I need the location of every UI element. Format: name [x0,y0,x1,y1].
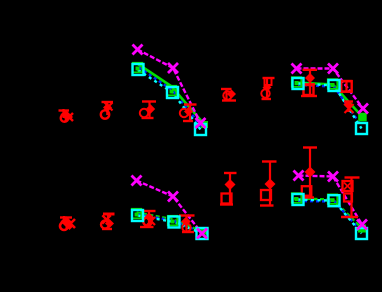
red diamond [181,217,191,226]
red open square [222,194,232,204]
green open square marker [133,63,143,73]
green open square marker [167,86,177,96]
cyan open square marker [293,78,304,89]
red open square [343,181,353,191]
red errbar cap [182,231,194,233]
red open circle [61,114,69,122]
top-left cyan dashed line [138,70,201,130]
green dot [171,220,175,224]
red errbar cap [143,210,156,212]
green dot [295,197,299,201]
magenta X marker [197,229,207,239]
red errbar cap [303,146,317,148]
red open circle [261,89,269,97]
red errbar cap [304,83,316,85]
top-right cyan dashed line [298,84,362,129]
red errbar cap [344,100,353,102]
bottom-left magenta dashed line [137,181,203,234]
red open square [302,186,312,196]
red open square [344,194,352,202]
red diamond [344,100,353,109]
red errbar [266,78,268,99]
red errbar [309,148,311,198]
red errbar [229,173,231,205]
red open square [341,81,352,92]
red errbar [63,216,65,224]
red errbar cap [142,100,156,102]
green dot [295,81,299,85]
bottom-right blue dashed line [298,201,361,231]
green open square marker [328,79,338,89]
red errbar [106,102,108,115]
red diamond [227,90,236,99]
red errbar cap [184,103,197,105]
bottom-right cyan dashed line [298,200,362,234]
green open square marker [168,216,178,226]
red errbar [62,109,64,118]
cyan open square marker [195,124,206,135]
red diamond [145,213,154,222]
green open square marker [292,193,302,203]
red errbar cap [59,109,70,111]
red diamond [67,114,73,120]
cyan open square marker [293,194,304,205]
red errbar cap [183,120,193,122]
green open square marker [328,194,338,204]
cyan open square marker [167,87,178,98]
top-left magenta dashed line [138,50,201,124]
cyan open square marker [329,80,340,91]
magenta X marker [133,45,143,55]
cyan open square marker [197,228,208,239]
magenta X marker [357,220,367,230]
red errbar [347,102,349,113]
green dot [170,90,174,94]
red open circle [143,217,151,225]
red cross [102,215,110,223]
magenta X marker [292,64,302,74]
red errbar cap [262,160,277,162]
red cross [147,217,155,225]
top-right green solid line [296,83,363,118]
red errbar [189,105,191,122]
top-right magenta dashed line [297,69,364,109]
red errbar cap [140,226,154,228]
red errbar cap [103,213,115,216]
bottom-right green dashed line [294,199,362,229]
red diamond [61,216,72,227]
red errbar cap [222,99,236,101]
red open circle [180,109,188,117]
red errbar cap [142,117,154,119]
red diamond [105,219,114,228]
green square marker [358,225,366,233]
red errbar [107,214,109,224]
red cross [344,183,351,190]
red diamond [66,223,73,230]
green dot [136,67,140,71]
red open circle [101,221,109,229]
red open square [265,78,272,85]
cyan open square marker [356,228,367,239]
green square marker [201,228,208,235]
bottom-right magenta dashed line [299,176,363,225]
red errbar cap [179,214,195,216]
red errbar cap [260,204,274,206]
red errbar cap [262,98,272,100]
red errbar cap [60,216,72,218]
red open circle [182,223,190,231]
red cross [65,113,73,121]
red errbar cap [221,88,232,90]
red errbar [225,89,227,101]
red diamond [265,179,276,190]
red errbar cap [102,101,114,103]
green square marker [201,121,208,128]
red open circle [60,222,68,230]
red errbar [350,178,352,218]
magenta X marker [328,172,338,182]
bottom-left cyan dashed line [138,216,203,234]
red open square [261,190,271,200]
red diamond [184,107,193,116]
green dot [331,83,335,87]
bottom-left green dashed line [137,213,203,232]
red errbar cap [263,77,275,79]
red diamond [146,104,155,114]
green open square marker [132,209,142,219]
red diamond [263,83,272,92]
red errbar cap [345,176,360,178]
cyan open square marker [169,217,180,228]
red open circle [223,91,231,99]
green open square marker [292,77,302,87]
red errbar cap [341,80,353,82]
red open circle [101,110,109,118]
magenta X marker [358,104,368,114]
red diamond [225,179,236,190]
magenta X marker [168,192,178,202]
red errbar cap [341,216,358,218]
cyan open square marker [356,123,367,134]
bottom-left blue dashed line [138,215,202,233]
magenta X marker [328,64,338,74]
red open circle [140,109,148,117]
top-left blue dashed line [139,68,203,128]
red errbar cap [303,69,318,71]
magenta X marker [196,118,206,128]
green square marker [358,113,367,122]
red open square [304,85,314,95]
red errbar [148,102,150,119]
red diamond [61,110,71,120]
red errbar cap [220,203,233,205]
red cross [345,104,354,113]
red errbar [309,70,311,96]
red errbar [345,81,347,92]
red diamond [305,167,316,178]
red errbar cap [102,228,112,230]
red diamond [305,73,315,83]
top-left green solid line [138,64,204,124]
magenta X marker [132,176,142,186]
red diamond [103,103,112,112]
red errbar [185,216,187,233]
green dot [331,198,335,202]
red errbar cap [224,172,237,174]
cyan open square marker [329,195,340,206]
red cross [66,219,75,228]
red errbar [269,162,271,206]
red errbar cap [302,196,314,198]
red errbar [148,211,150,227]
green dot [135,213,139,217]
top-right blue dashed line [298,85,360,123]
magenta X marker [168,63,178,73]
red errbar cap [301,95,317,97]
magenta X marker [294,171,304,181]
red errbar cap [341,90,352,92]
red cross [105,103,113,111]
cyan open square marker [133,64,144,75]
cyan open square marker [132,210,143,221]
